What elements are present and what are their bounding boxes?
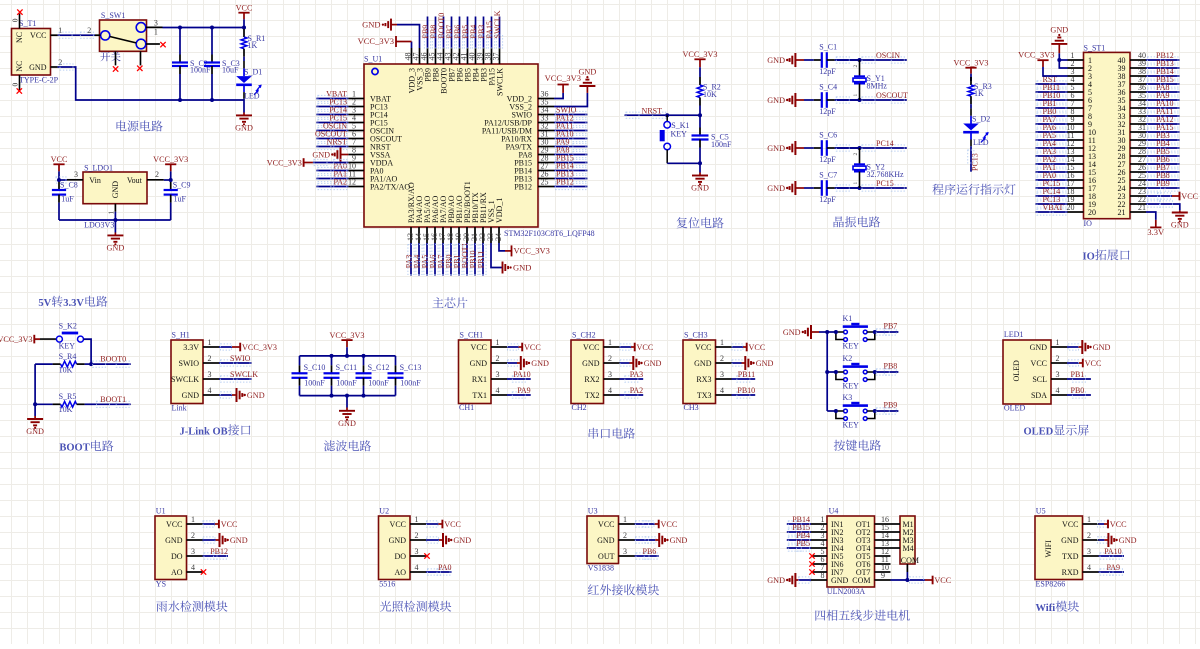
- net PB0 wire bottom: [450, 243, 452, 276]
- svg-text:GND: GND: [767, 56, 785, 65]
- net VBAT wire: [316, 98, 348, 100]
- U1 pin 35 VSS_2: [538, 106, 554, 108]
- wire LDO.2 to VCC_3V3 node: [164, 179, 171, 181]
- U1 pin 10 PA0: [348, 170, 364, 172]
- svg-text:BOOT1: BOOT1: [100, 395, 126, 404]
- svg-text:U2: U2: [379, 507, 389, 516]
- svg-text:1: 1: [154, 28, 158, 37]
- svg-text:S_CH3: S_CH3: [684, 331, 708, 340]
- svg-text:1: 1: [720, 338, 724, 347]
- resistor S_R2 10K: [699, 76, 701, 78]
- svg-text:S_C1: S_C1: [819, 42, 837, 51]
- svg-text:K2: K2: [843, 354, 853, 363]
- U5 pin 2 GND: [1083, 539, 1099, 541]
- svg-text:NRST: NRST: [642, 107, 663, 116]
- svg-text:LED: LED: [973, 138, 989, 147]
- svg-text:3: 3: [191, 547, 195, 556]
- svg-text:PA10: PA10: [1104, 547, 1122, 556]
- net PC15 wire ST1 left: [1036, 187, 1068, 189]
- svg-text:GND: GND: [453, 536, 471, 545]
- node LDO input junction: [57, 178, 61, 182]
- svg-text:GND: GND: [1093, 343, 1111, 352]
- svg-text:CH2: CH2: [572, 403, 587, 412]
- power VCC_3V3 boot: [33, 335, 35, 344]
- net PA9 wire S_CH1 pin 4: [507, 394, 531, 396]
- svg-text:OLED: OLED: [1004, 403, 1026, 412]
- svg-text:PB9: PB9: [1156, 179, 1170, 188]
- no-connect U4 pin 7: [809, 569, 814, 574]
- net PB4 wire top: [475, 17, 477, 49]
- svg-text:ESP8266: ESP8266: [1036, 580, 1066, 589]
- svg-text:VCC_3V3: VCC_3V3: [545, 73, 581, 83]
- ground GND at U1 pin 8 VSSA: [341, 154, 349, 156]
- svg-text:3: 3: [496, 370, 500, 379]
- power VCC at S_CH2 pin 1: [620, 346, 632, 348]
- U4 pin 8 GND: [811, 579, 827, 581]
- ST1 pin 6: [1068, 99, 1084, 101]
- net SWCLK wire H1: [219, 378, 252, 380]
- svg-text:1: 1: [208, 338, 212, 347]
- capacitor S_C13 100nF: [395, 356, 397, 365]
- net PA15 wire top: [491, 17, 493, 49]
- svg-text:GND: GND: [756, 359, 774, 368]
- ground GND at U3 pin 2: [635, 539, 656, 541]
- svg-text:RX2: RX2: [584, 375, 599, 384]
- net PB11 wire bottom: [482, 243, 484, 276]
- T1 top pin 0 no-connect: [19, 14, 21, 29]
- net PB13 wire ST1 right: [1146, 67, 1180, 69]
- wire filter bottom rail: [300, 395, 396, 397]
- title program run indicator: [932, 184, 1015, 195]
- net PA12 wire ST1 right: [1146, 123, 1180, 125]
- net SWCLK wire top: [499, 17, 501, 49]
- svg-text:PB7: PB7: [884, 321, 898, 330]
- svg-text:S_H1: S_H1: [172, 331, 190, 340]
- svg-text:0: 0: [11, 83, 20, 87]
- net PA0 wire ST1 left: [1036, 179, 1068, 181]
- display LED1 OLED: [1003, 340, 1051, 404]
- U1 pin 27 PB14: [538, 170, 554, 172]
- S_CH2 pin 1 VCC: [604, 346, 620, 348]
- power VCC at ST1 pin 23: [1146, 195, 1172, 197]
- ST1 pin 4: [1068, 83, 1084, 85]
- wire T1.2 to GND rail: [58, 67, 244, 100]
- svg-text:1K: 1K: [974, 89, 984, 98]
- wire BOOT0 left rail down: [34, 364, 36, 404]
- svg-text:3: 3: [1056, 370, 1060, 379]
- svg-text:PB10: PB10: [737, 386, 755, 395]
- svg-text:GND: GND: [767, 576, 785, 585]
- ST1 pin 36: [1130, 91, 1146, 93]
- U1 pin 20 PB2/BOOT1 bottom: [466, 227, 468, 243]
- net PA6 wire ST1 left: [1036, 131, 1068, 133]
- S_CH1 pin 3 RX1: [491, 378, 507, 380]
- title light detect module: [380, 601, 451, 612]
- ground GND power rail: [243, 100, 245, 113]
- svg-text:S_C4: S_C4: [819, 82, 837, 91]
- capacitor S_C7 12pF: [804, 187, 814, 189]
- svg-text:KEY: KEY: [843, 341, 860, 350]
- svg-text:3: 3: [720, 370, 724, 379]
- svg-text:5V: 5V: [38, 298, 51, 309]
- svg-text:12pF: 12pF: [819, 107, 836, 116]
- U4 pin 6 IN6: [811, 563, 827, 565]
- net PB11 wire S_CH3 pin 3: [732, 378, 756, 380]
- net PB5 wire U4 pin 4: [787, 547, 811, 549]
- svg-text:VCC: VCC: [1031, 359, 1047, 368]
- ST1 pin 28: [1130, 155, 1146, 157]
- power VCC_3V3 at U1 pin 9 VDDA: [313, 162, 348, 164]
- LED1 pin 2 VCC: [1051, 362, 1067, 364]
- net PB6 wire top: [459, 17, 461, 49]
- capacitor S_C10 100nF: [299, 356, 301, 365]
- svg-text:VCC: VCC: [1062, 520, 1078, 529]
- svg-text:S_R5: S_R5: [59, 392, 77, 401]
- U2 pin 4 AO: [410, 571, 426, 573]
- svg-text:KEY: KEY: [843, 420, 860, 429]
- svg-text:2: 2: [608, 354, 612, 363]
- net PB14 wire: [554, 170, 587, 172]
- wire VCC rail top: [163, 27, 245, 29]
- svg-text:4: 4: [191, 563, 195, 572]
- U1 pin 43 PB7 top: [451, 48, 453, 64]
- svg-text:K3: K3: [843, 393, 853, 402]
- U1 pin 33 PA12/USB/DP: [538, 122, 554, 124]
- ST1 pin 7: [1068, 107, 1084, 109]
- svg-text:U4: U4: [829, 507, 839, 516]
- net PC13 wire ST1 left: [1036, 203, 1068, 205]
- svg-text:2: 2: [1087, 531, 1091, 540]
- LDO pin 3 stub: [67, 179, 83, 181]
- U1 pin 17 PA7/AO bottom: [442, 227, 444, 243]
- svg-text:WIFI: WIFI: [1044, 540, 1053, 558]
- svg-text:VCC_3V3: VCC_3V3: [242, 343, 277, 352]
- wire GND rail bottom: [178, 98, 182, 102]
- net BOOT0 wire top: [443, 17, 445, 49]
- svg-text:J-Link OB: J-Link OB: [180, 426, 228, 437]
- wire K2 to BOOT0 node: [84, 339, 92, 364]
- svg-text:VCC_3V3: VCC_3V3: [953, 58, 988, 67]
- net VBAT wire ST1 left: [1036, 211, 1068, 213]
- U2 pin 3 DO: [410, 555, 426, 557]
- svg-text:VCC: VCC: [524, 343, 541, 352]
- net NRST wire: [625, 114, 668, 116]
- svg-text:1: 1: [496, 338, 500, 347]
- power 3.3V at ST1 pin 21: [1146, 212, 1156, 220]
- net PA10 wire: [554, 138, 587, 140]
- resistor S_R3 1K: [970, 77, 972, 81]
- svg-text:VCC: VCC: [749, 343, 766, 352]
- U1 pin 25 PB12: [538, 186, 554, 188]
- capacitor S_C3 10uF: [211, 28, 213, 55]
- U4 pin 16 OT1: [875, 523, 891, 525]
- ground GND at ST1 pin 22: [1146, 204, 1180, 210]
- svg-text:2: 2: [853, 153, 859, 156]
- svg-text:1: 1: [107, 211, 115, 215]
- svg-text:10K: 10K: [59, 366, 73, 375]
- U1 pin 14 PA4/AO bottom: [418, 227, 420, 243]
- svg-text:2: 2: [58, 58, 62, 67]
- ST1 pin 37: [1130, 83, 1146, 85]
- node VCC rail junctions: [178, 26, 182, 30]
- svg-text:SWCLK: SWCLK: [171, 375, 199, 384]
- svg-text:100nF: 100nF: [368, 379, 389, 388]
- svg-text:SCL: SCL: [1032, 375, 1047, 384]
- ground GND at U1 pin 35: [554, 93, 587, 107]
- svg-text:TXD: TXD: [1062, 552, 1079, 561]
- ST1 pin 35: [1130, 99, 1146, 101]
- wire OSCIN net: [835, 59, 907, 61]
- U1 pin 29 PA8: [538, 154, 554, 156]
- ST1 pin 27: [1130, 163, 1146, 165]
- net PB10 wire S_CH3 pin 4: [732, 394, 756, 396]
- svg-text:PA2/TX/AO: PA2/TX/AO: [370, 182, 410, 191]
- svg-text:TX2: TX2: [585, 391, 600, 400]
- T1 pin 2 GND stub: [51, 66, 58, 68]
- svg-text:1: 1: [58, 26, 62, 35]
- svg-text:3.3V: 3.3V: [1147, 227, 1165, 237]
- svg-text:Vin: Vin: [89, 176, 101, 185]
- H1 pin 4 GND: [203, 394, 219, 396]
- title rain detect module: [156, 601, 227, 612]
- net OSCIN wire: [316, 130, 348, 132]
- title crystal circuit: [834, 216, 881, 227]
- U1 pin 26 PB13: [538, 178, 554, 180]
- svg-text:4: 4: [720, 386, 724, 395]
- capacitor S_C8 1uF: [58, 180, 60, 182]
- svg-text:VCC: VCC: [390, 520, 406, 529]
- svg-text:GND: GND: [338, 419, 356, 428]
- svg-text:PC15: PC15: [876, 179, 894, 188]
- U1 pin 28 PB15: [538, 162, 554, 164]
- U1 pin 5 OSCIN: [348, 130, 364, 132]
- svg-text:IO: IO: [1083, 251, 1095, 262]
- net PB10 wire ST1 left: [1036, 99, 1068, 101]
- svg-text:2: 2: [191, 531, 195, 540]
- net PB8 wire top: [435, 17, 437, 49]
- U3 pin 2 GND: [619, 539, 635, 541]
- svg-text:CH1: CH1: [459, 403, 474, 412]
- svg-text:12pF: 12pF: [819, 195, 836, 204]
- U1 pin 37 SWCLK top: [499, 48, 501, 64]
- svg-text:U3: U3: [588, 507, 598, 516]
- svg-text:1uF: 1uF: [61, 195, 74, 204]
- no-connect at U1 pin 4: [201, 569, 206, 574]
- svg-text:PB12: PB12: [556, 178, 574, 187]
- power VCC_3V3 at U1 pin 24 VDD_1: [499, 243, 505, 251]
- ground GND at U1 pin 2: [203, 539, 216, 541]
- svg-text:9: 9: [881, 571, 885, 580]
- U4 pin 9 COM: [875, 579, 891, 581]
- U4 pin 2 IN2: [811, 531, 827, 533]
- svg-text:ULN2003A: ULN2003A: [827, 587, 865, 596]
- U1 pin 19 PB1/AO bottom: [458, 227, 460, 243]
- capacitor S_C9 1uF: [170, 180, 172, 182]
- svg-text:CH3: CH3: [684, 403, 699, 412]
- svg-text:PA3: PA3: [630, 370, 644, 379]
- svg-text:4: 4: [1087, 563, 1091, 572]
- net PA8 wire ST1 right: [1146, 91, 1180, 93]
- ground GND at S_CH3 pin 2: [732, 362, 742, 364]
- svg-text:SWIO: SWIO: [230, 354, 251, 363]
- S_CH1 pin 4 TX1: [491, 394, 507, 396]
- wire PC14 net: [835, 147, 907, 149]
- ST1 pin 33: [1130, 115, 1146, 117]
- net PB3 wire ST1 right: [1146, 139, 1180, 141]
- U1 pin 47 VSS_3 top: [419, 48, 421, 64]
- svg-text:10uF: 10uF: [222, 66, 239, 75]
- net PB9 wire key K3: [875, 410, 899, 412]
- ground GND at S_C4: [795, 99, 804, 101]
- svg-text:12pF: 12pF: [819, 155, 836, 164]
- net PA15 wire ST1 right: [1146, 131, 1180, 133]
- ground GND at LED1 pin 1: [1067, 346, 1079, 348]
- net PB3 wire top: [483, 17, 485, 49]
- svg-text:100nF: 100nF: [336, 379, 357, 388]
- U1 pin 6 OSCOUT: [348, 138, 364, 140]
- svg-text:VCC: VCC: [1181, 192, 1198, 201]
- switch S_SW1: [100, 20, 147, 51]
- net PA5 wire bottom: [426, 243, 428, 276]
- ST1 pin 25: [1130, 179, 1146, 181]
- net PB10 wire bottom: [474, 243, 476, 276]
- svg-text:3: 3: [623, 547, 627, 556]
- net PA9 wire ST1 right: [1146, 99, 1180, 101]
- svg-text:YS: YS: [156, 580, 166, 589]
- power VCC_3V3 at U1 pin 36: [554, 93, 563, 99]
- net BOOT1 wire: [95, 403, 131, 405]
- ST1 pin 18: [1068, 195, 1084, 197]
- T1 pin 1 VCC stub: [51, 34, 58, 36]
- U1 pin 34 SWIO: [538, 114, 554, 116]
- ST1 pin 10: [1068, 131, 1084, 133]
- LED1 pin 1 GND: [1051, 346, 1067, 348]
- motor pin M2 wire: [891, 531, 901, 533]
- svg-text:GND: GND: [767, 184, 785, 193]
- ST1 pin 39: [1130, 67, 1146, 69]
- svg-text:TX3: TX3: [697, 391, 712, 400]
- U1 pin 44 BOOT0 top: [443, 48, 445, 64]
- net PA2 wire: [316, 186, 348, 188]
- svg-text:U1: U1: [156, 507, 166, 516]
- SW1 pin 1 stub no-connect: [146, 43, 160, 45]
- svg-text:10K: 10K: [703, 90, 717, 99]
- svg-text:GND: GND: [582, 359, 600, 368]
- ground GND at U1 pin 47: [397, 25, 420, 48]
- svg-text:2: 2: [87, 26, 91, 35]
- U4 pin 7 IN7: [811, 571, 827, 573]
- power VCC at LED1 pin 2: [1067, 362, 1079, 364]
- svg-text:4: 4: [415, 563, 419, 572]
- power VCC at U4 pin 9: [932, 576, 934, 585]
- wire filter top rail: [300, 355, 396, 357]
- U4 pin 1 IN1: [811, 523, 827, 525]
- svg-text:GND: GND: [107, 243, 125, 252]
- LDO pin 2 stub: [147, 179, 164, 181]
- net PA2 wire ST1 left: [1036, 163, 1068, 165]
- net PB1 wire ST1 left: [1036, 107, 1068, 109]
- svg-text:KEY: KEY: [843, 381, 860, 390]
- svg-text:S_C9: S_C9: [173, 181, 191, 190]
- svg-text:GND: GND: [1030, 343, 1048, 352]
- ST1 pin 16: [1068, 179, 1084, 181]
- svg-text:VCC: VCC: [236, 3, 253, 12]
- svg-text:SWCLK: SWCLK: [230, 370, 258, 379]
- svg-text:PB11: PB11: [476, 251, 485, 269]
- U1 pin 11 PA1/AO: [348, 178, 364, 180]
- net PB1 wire bottom: [458, 243, 460, 276]
- ST1 pin 30: [1130, 139, 1146, 141]
- svg-text:3: 3: [154, 18, 158, 27]
- U3 pin 3 OUT: [619, 555, 635, 557]
- net PB4 wire U4 pin 3: [787, 539, 811, 541]
- svg-text:3: 3: [415, 547, 419, 556]
- svg-text:3.3V: 3.3V: [63, 298, 84, 309]
- capacitor S_C11 100nF: [331, 356, 333, 365]
- U1 pin 2 PC13: [348, 106, 364, 108]
- svg-text:GND: GND: [389, 536, 407, 545]
- svg-text:1: 1: [623, 515, 627, 524]
- svg-text:PB1: PB1: [1071, 370, 1085, 379]
- U4 pin 14 OT3: [875, 539, 891, 541]
- net PB12 wire U1 pin 3: [203, 555, 229, 557]
- svg-text:COM: COM: [852, 576, 870, 585]
- ST1 pin 21: [1130, 211, 1146, 213]
- wire VCC to LDO Vin: [59, 179, 67, 181]
- svg-text:GND: GND: [1119, 536, 1137, 545]
- no-connect U4 pin 5: [809, 553, 814, 558]
- ground GND at U4 pin 8: [798, 579, 811, 581]
- wire NRST to R2/C5: [667, 114, 700, 116]
- module U5 ESP8266: [1035, 516, 1083, 580]
- svg-text:S_T1: S_T1: [19, 19, 36, 28]
- capacitor S_C1 12pF: [804, 59, 814, 61]
- svg-text:VCC_3V3: VCC_3V3: [267, 158, 302, 167]
- U1 pin 1 VBAT: [348, 98, 364, 100]
- net PA1 wire: [316, 178, 348, 180]
- svg-text:GND: GND: [29, 63, 47, 72]
- ground GND reset: [699, 163, 701, 172]
- svg-text:AO: AO: [394, 568, 406, 577]
- S_CH2 pin 3 RX2: [604, 378, 620, 380]
- wire T1.1 to SW1.2: [58, 34, 95, 36]
- svg-text:100nF: 100nF: [304, 379, 325, 388]
- net PB6 wire U3 pin 3: [635, 555, 659, 557]
- U1 pin 18 PB0/AO bottom: [450, 227, 452, 243]
- wire key feed vertical: [826, 332, 828, 411]
- net PB7 wire key K1: [875, 331, 899, 333]
- svg-text:PB0: PB0: [1071, 386, 1085, 395]
- svg-text:OSCOUT: OSCOUT: [876, 91, 908, 100]
- SW1 pin 2 stub: [95, 34, 101, 36]
- svg-text:0: 0: [11, 18, 20, 22]
- U4 pin 15 OT2: [875, 531, 891, 533]
- svg-text:GND: GND: [597, 536, 615, 545]
- net NRST wire: [316, 146, 348, 148]
- capacitor S_C2 100nF: [179, 28, 181, 55]
- ST1 pin 8: [1068, 115, 1084, 117]
- power VCC at U5 pin 1: [1099, 523, 1105, 525]
- module U3 VS1838: [587, 516, 619, 564]
- svg-text:PB12: PB12: [514, 182, 532, 191]
- svg-text:LED: LED: [244, 92, 260, 101]
- svg-text:VCC: VCC: [30, 31, 46, 40]
- svg-text:100nF: 100nF: [711, 140, 732, 149]
- svg-text:3: 3: [1087, 547, 1091, 556]
- S_CH1 pin 2 GND: [491, 362, 507, 364]
- net PC14 wire ST1 left: [1036, 195, 1068, 197]
- ground GND at U5 pin 2: [1099, 539, 1105, 541]
